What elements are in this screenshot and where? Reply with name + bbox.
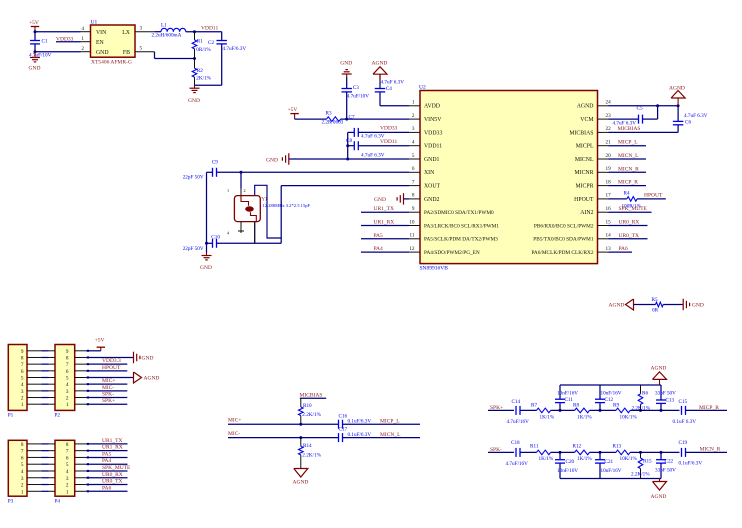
svg-text:1: 1 — [21, 402, 24, 408]
svg-text:1K/1%: 1K/1% — [577, 456, 592, 462]
svg-text:HPOUT: HPOUT — [102, 365, 121, 371]
svg-text:5: 5 — [21, 462, 24, 468]
svg-text:4.7uF/6.3V: 4.7uF/6.3V — [223, 46, 247, 52]
svg-text:MICP_R: MICP_R — [618, 180, 638, 186]
svg-text:C13: C13 — [666, 398, 675, 404]
svg-text:0.1uF/6.3V: 0.1uF/6.3V — [348, 419, 372, 425]
svg-text:MICP_R: MICP_R — [699, 405, 719, 411]
svg-text:+5V: +5V — [29, 20, 39, 26]
svg-text:PA4: PA4 — [102, 458, 112, 464]
svg-text:10K/1%: 10K/1% — [620, 456, 638, 462]
svg-text:R1: R1 — [197, 39, 203, 45]
svg-text:PA6: PA6 — [102, 485, 112, 491]
svg-text:14: 14 — [606, 233, 612, 239]
svg-text:VDD33: VDD33 — [424, 130, 442, 136]
svg-text:7: 7 — [21, 449, 24, 455]
svg-text:VDD11: VDD11 — [424, 144, 442, 150]
svg-text:GND: GND — [29, 66, 41, 72]
svg-text:VDD33: VDD33 — [380, 126, 398, 132]
svg-text:23: 23 — [606, 113, 612, 119]
svg-text:6: 6 — [66, 369, 69, 375]
svg-text:C19: C19 — [679, 440, 688, 446]
svg-text:+5V: +5V — [288, 107, 298, 113]
svg-text:MICN_R: MICN_R — [618, 166, 639, 172]
svg-text:U1: U1 — [91, 19, 98, 25]
svg-text:4: 4 — [412, 140, 415, 146]
svg-text:2: 2 — [244, 188, 246, 193]
svg-text:10nF/16V: 10nF/16V — [557, 391, 578, 397]
svg-text:AGND: AGND — [609, 302, 625, 308]
svg-text:12.288MHz 3.2*2.5 15pF: 12.288MHz 3.2*2.5 15pF — [263, 203, 311, 208]
svg-text:R5: R5 — [652, 297, 658, 303]
svg-text:3: 3 — [412, 126, 415, 132]
svg-text:AGND: AGND — [651, 365, 667, 371]
svg-text:24: 24 — [606, 100, 612, 106]
svg-text:PA5: PA5 — [374, 233, 384, 239]
svg-text:6: 6 — [412, 166, 415, 172]
svg-text:GND: GND — [374, 197, 386, 203]
svg-text:C2: C2 — [208, 40, 214, 46]
svg-text:4.7uF 6.3V: 4.7uF 6.3V — [381, 80, 405, 86]
svg-text:22pF 50V: 22pF 50V — [183, 246, 204, 252]
svg-text:R2: R2 — [197, 68, 203, 74]
svg-text:13: 13 — [606, 246, 612, 252]
svg-text:GND: GND — [340, 60, 352, 66]
svg-text:2.2K/1%: 2.2K/1% — [632, 406, 651, 412]
svg-text:4.7uF/16V: 4.7uF/16V — [506, 461, 529, 467]
svg-text:P1: P1 — [8, 413, 14, 419]
svg-text:8: 8 — [412, 193, 415, 199]
svg-text:0R/1%: 0R/1% — [196, 47, 211, 53]
svg-text:GND: GND — [188, 98, 200, 104]
svg-text:9: 9 — [412, 206, 415, 212]
svg-text:C21: C21 — [605, 459, 614, 465]
svg-text:5: 5 — [21, 376, 24, 382]
svg-text:MIC-: MIC- — [228, 431, 240, 437]
svg-text:P3: P3 — [8, 499, 14, 505]
svg-text:R14: R14 — [303, 443, 312, 449]
svg-text:SPK+: SPK+ — [102, 398, 115, 404]
svg-text:VIN5V: VIN5V — [424, 117, 442, 123]
svg-text:AGND: AGND — [293, 480, 309, 486]
svg-text:GND: GND — [266, 157, 278, 163]
svg-text:GND: GND — [142, 356, 154, 362]
svg-text:C8: C8 — [346, 138, 352, 144]
svg-text:MIC+: MIC+ — [228, 418, 242, 424]
svg-text:R8: R8 — [573, 402, 579, 408]
svg-text:R15: R15 — [643, 459, 652, 465]
svg-text:R7: R7 — [531, 402, 537, 408]
svg-text:0.1uF 6.3V: 0.1uF 6.3V — [673, 419, 697, 425]
svg-text:2.2K/1%: 2.2K/1% — [302, 412, 321, 418]
svg-text:9: 9 — [66, 349, 69, 355]
svg-text:UR0_TX: UR0_TX — [102, 479, 123, 485]
svg-text:5: 5 — [140, 46, 143, 52]
svg-text:4.7uF 6.3V: 4.7uF 6.3V — [361, 153, 385, 159]
svg-text:AIN2: AIN2 — [580, 210, 593, 216]
svg-text:R4: R4 — [624, 191, 630, 197]
svg-text:VIN: VIN — [96, 30, 107, 36]
svg-text:PB6/RX0/BC0 SCL/PWM2: PB6/RX0/BC0 SCL/PWM2 — [534, 223, 594, 229]
svg-text:MIC-: MIC- — [102, 385, 114, 391]
svg-text:4.7uF/10V: 4.7uF/10V — [347, 93, 370, 99]
svg-text:3: 3 — [66, 476, 69, 482]
svg-text:C15: C15 — [679, 399, 688, 405]
svg-text:2: 2 — [412, 113, 415, 119]
svg-text:C22: C22 — [665, 459, 674, 465]
svg-text:8: 8 — [66, 442, 69, 448]
svg-text:UR0_RX: UR0_RX — [102, 472, 123, 478]
svg-text:MICNL: MICNL — [575, 157, 594, 163]
svg-text:C10: C10 — [211, 235, 220, 241]
svg-text:12: 12 — [409, 246, 415, 252]
svg-text:C1: C1 — [42, 38, 48, 44]
svg-text:2: 2 — [66, 483, 69, 489]
svg-text:4: 4 — [66, 382, 69, 388]
svg-text:7: 7 — [66, 362, 69, 368]
svg-text:1: 1 — [66, 402, 69, 408]
svg-text:7: 7 — [21, 362, 24, 368]
svg-text:21: 21 — [606, 140, 612, 146]
svg-text:2.2K/1%: 2.2K/1% — [631, 471, 650, 477]
svg-text:MICPR: MICPR — [575, 184, 593, 190]
svg-text:PA2/SDMIC0 SDA/TX1/PWM0: PA2/SDMIC0 SDA/TX1/PWM0 — [424, 210, 494, 216]
svg-text:PA6/MCLK/PDM CLK/RX2: PA6/MCLK/PDM CLK/RX2 — [531, 250, 593, 256]
svg-text:1: 1 — [227, 188, 229, 193]
svg-text:UR1_TX: UR1_TX — [102, 438, 123, 444]
svg-text:4: 4 — [21, 469, 24, 475]
svg-text:PA5/SCLK/PDM DA/TX2/PWM3: PA5/SCLK/PDM DA/TX2/PWM3 — [424, 237, 498, 243]
svg-text:XOUT: XOUT — [424, 184, 441, 190]
svg-text:2.2K/1%: 2.2K/1% — [302, 453, 321, 459]
svg-text:4: 4 — [81, 26, 84, 32]
svg-text:1: 1 — [81, 36, 84, 42]
svg-text:XIN: XIN — [424, 170, 435, 176]
svg-text:33pF 50V: 33pF 50V — [655, 391, 676, 397]
svg-text:9: 9 — [21, 349, 24, 355]
svg-text:6: 6 — [21, 455, 24, 461]
svg-text:LX: LX — [122, 30, 131, 36]
svg-text:10nF/16V: 10nF/16V — [601, 468, 622, 474]
svg-text:SPK_MUTE: SPK_MUTE — [619, 206, 648, 212]
svg-text:19: 19 — [606, 166, 612, 172]
svg-text:+5V: +5V — [95, 338, 105, 344]
svg-text:C3: C3 — [353, 85, 359, 91]
svg-text:MICBIAS: MICBIAS — [300, 392, 323, 398]
svg-text:17: 17 — [606, 193, 612, 199]
svg-text:SN89916VB: SN89916VB — [420, 265, 449, 271]
svg-text:R11: R11 — [530, 444, 539, 450]
svg-text:PA6: PA6 — [619, 246, 629, 252]
svg-text:PB5/TX0/BC0 SDA/PWM1: PB5/TX0/BC0 SDA/PWM1 — [533, 237, 594, 243]
svg-text:MICBIAS: MICBIAS — [618, 126, 641, 132]
svg-text:SPK-: SPK- — [490, 447, 502, 453]
svg-text:GND1: GND1 — [424, 157, 440, 163]
svg-text:1K/1%: 1K/1% — [577, 414, 592, 420]
svg-text:VDD3.3: VDD3.3 — [102, 358, 121, 364]
svg-text:1: 1 — [412, 100, 415, 106]
svg-text:10: 10 — [409, 219, 415, 225]
svg-text:R6: R6 — [642, 390, 648, 396]
svg-text:C5: C5 — [637, 106, 643, 112]
svg-text:16: 16 — [606, 206, 612, 212]
svg-text:C7: C7 — [349, 114, 355, 120]
svg-text:7: 7 — [412, 179, 415, 185]
svg-text:SPK+: SPK+ — [490, 405, 503, 411]
svg-text:MICPL: MICPL — [576, 144, 594, 150]
svg-text:P4: P4 — [55, 499, 61, 505]
svg-text:UR1_RX: UR1_RX — [102, 445, 123, 451]
svg-text:8: 8 — [66, 355, 69, 361]
svg-text:GND: GND — [692, 303, 704, 309]
svg-text:AGND: AGND — [651, 494, 667, 500]
svg-text:MIC+: MIC+ — [102, 378, 116, 384]
svg-text:VDD11: VDD11 — [201, 26, 218, 32]
svg-text:7: 7 — [66, 449, 69, 455]
svg-text:22: 22 — [606, 126, 612, 132]
svg-text:AVDD: AVDD — [424, 104, 440, 110]
svg-text:33pF 50V: 33pF 50V — [655, 467, 676, 473]
svg-text:5: 5 — [412, 153, 415, 159]
svg-text:1: 1 — [66, 489, 69, 495]
svg-text:18: 18 — [606, 179, 612, 185]
svg-text:11: 11 — [410, 233, 415, 239]
svg-text:UR0_RX: UR0_RX — [619, 220, 640, 226]
svg-text:UR0_TX: UR0_TX — [619, 233, 640, 239]
svg-text:8: 8 — [21, 442, 24, 448]
svg-text:1K/1%: 1K/1% — [540, 414, 555, 420]
svg-text:R3: R3 — [326, 111, 332, 117]
svg-text:10nF/16V: 10nF/16V — [557, 468, 578, 474]
svg-text:2.2R/0603: 2.2R/0603 — [322, 119, 344, 125]
svg-text:22pF 50V: 22pF 50V — [183, 174, 204, 180]
svg-text:C16: C16 — [339, 413, 348, 419]
svg-text:0R: 0R — [652, 307, 659, 313]
svg-text:MICN_R: MICN_R — [700, 446, 721, 452]
svg-text:EN: EN — [96, 40, 105, 46]
svg-text:FB: FB — [123, 50, 130, 56]
svg-text:2: 2 — [21, 396, 24, 402]
svg-text:2: 2 — [21, 483, 24, 489]
svg-text:C4: C4 — [386, 86, 392, 92]
svg-text:R10: R10 — [303, 403, 312, 409]
svg-text:C18: C18 — [511, 440, 520, 446]
svg-text:UR1_RX: UR1_RX — [374, 220, 395, 226]
svg-text:4: 4 — [66, 469, 69, 475]
svg-text:2.2uH/600mA: 2.2uH/600mA — [152, 33, 182, 39]
svg-text:HPOUT: HPOUT — [574, 197, 594, 203]
svg-text:GND: GND — [96, 50, 109, 56]
svg-text:GND2: GND2 — [424, 197, 440, 203]
svg-text:UR1_TX: UR1_TX — [374, 206, 395, 212]
svg-text:10nF/16V: 10nF/16V — [601, 391, 622, 397]
svg-text:3: 3 — [21, 389, 24, 395]
svg-text:MICN_L: MICN_L — [380, 432, 401, 438]
svg-text:4.7uF/16V: 4.7uF/16V — [507, 419, 530, 425]
svg-text:HPOUT: HPOUT — [644, 192, 663, 198]
svg-text:C20: C20 — [566, 459, 575, 465]
svg-text:3: 3 — [140, 26, 143, 32]
svg-text:R13: R13 — [613, 444, 622, 450]
svg-text:L1: L1 — [161, 23, 167, 29]
svg-text:AGND: AGND — [372, 60, 388, 66]
svg-text:GND: GND — [200, 265, 212, 271]
svg-text:AGND: AGND — [144, 376, 160, 382]
svg-text:R9: R9 — [613, 402, 619, 408]
svg-text:6: 6 — [21, 369, 24, 375]
svg-text:15: 15 — [606, 219, 612, 225]
svg-text:MICP_L: MICP_L — [380, 418, 400, 424]
svg-text:2K/1%: 2K/1% — [196, 75, 211, 81]
svg-text:5: 5 — [66, 376, 69, 382]
svg-text:10K/1%: 10K/1% — [620, 414, 638, 420]
svg-text:MICBIAS: MICBIAS — [569, 130, 593, 136]
svg-text:MICNR: MICNR — [574, 170, 593, 176]
svg-text:AGND: AGND — [577, 104, 594, 110]
svg-text:8: 8 — [21, 355, 24, 361]
svg-text:1: 1 — [21, 489, 24, 495]
svg-text:4: 4 — [21, 382, 24, 388]
svg-text:20: 20 — [606, 153, 612, 159]
svg-text:P2: P2 — [55, 413, 61, 419]
svg-text:3: 3 — [66, 389, 69, 395]
svg-text:MICP_L: MICP_L — [618, 140, 638, 146]
svg-text:6: 6 — [66, 455, 69, 461]
svg-text:3: 3 — [21, 476, 24, 482]
svg-text:2: 2 — [66, 396, 69, 402]
svg-text:0.1uF/6.3V: 0.1uF/6.3V — [348, 432, 372, 438]
svg-text:PA4: PA4 — [374, 246, 384, 252]
svg-text:C14: C14 — [512, 399, 521, 405]
svg-text:C6: C6 — [685, 119, 691, 125]
svg-text:VCM: VCM — [580, 117, 593, 123]
svg-text:SPK_MUTE: SPK_MUTE — [102, 465, 131, 471]
svg-text:VDD11: VDD11 — [380, 139, 397, 145]
svg-text:0.1uF/6.3V: 0.1uF/6.3V — [679, 461, 703, 467]
svg-text:5: 5 — [66, 462, 69, 468]
svg-text:PA4/SDO/PWM2/PG_EN: PA4/SDO/PWM2/PG_EN — [424, 250, 480, 256]
svg-text:MICN_L: MICN_L — [618, 153, 639, 159]
svg-text:2: 2 — [81, 46, 84, 52]
svg-text:XT5406 AFMR-G: XT5406 AFMR-G — [91, 60, 132, 66]
svg-text:C17: C17 — [339, 427, 348, 433]
svg-text:R12: R12 — [573, 444, 582, 450]
svg-text:C9: C9 — [212, 159, 218, 165]
svg-text:U2: U2 — [419, 85, 426, 91]
svg-text:PA5: PA5 — [102, 451, 112, 457]
svg-text:SPK-: SPK- — [102, 392, 114, 398]
svg-text:PA3/LRCK/BC0 SCL/RX1/PWM1: PA3/LRCK/BC0 SCL/RX1/PWM1 — [424, 223, 499, 229]
svg-text:AGND: AGND — [669, 85, 685, 91]
svg-text:4.7uF 6.3V: 4.7uF 6.3V — [684, 113, 708, 119]
svg-text:1K/1%: 1K/1% — [539, 456, 554, 462]
